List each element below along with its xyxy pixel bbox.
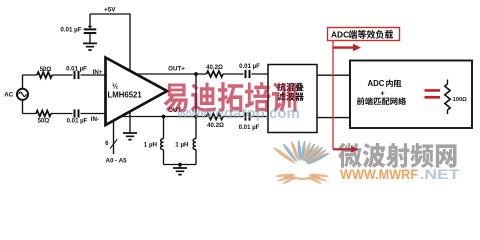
op-amp U1 LMH6521 [106,58,168,126]
red arrow top [333,44,361,51]
capacitor C1 0.01µF top input [66,66,87,80]
capacitor C2 0.01µF bottom input [67,109,88,124]
watermark 易迪拓培训 [164,82,297,112]
svg-text:LMH6521: LMH6521 [108,91,143,100]
svg-text:½: ½ [112,81,118,90]
svg-text:+: + [380,88,385,97]
svg-text:OUT+: OUT+ [168,65,185,72]
svg-text:IN-: IN- [91,116,99,123]
svg-text:1 µH: 1 µH [175,141,189,148]
watermark fan logo [273,140,331,185]
resistor R2 50Ω bottom input [36,111,51,125]
svg-text:40.2Ω: 40.2Ω [207,122,224,129]
svg-text:+5V: +5V [104,7,116,14]
svg-text:AC: AC [4,92,13,99]
bus A0-A5 [105,121,127,165]
svg-text:0.01 µF: 0.01 µF [67,118,88,125]
wire OUT- line [121,116,268,118]
resistor R5 100Ω [445,80,467,115]
svg-text:ADC: ADC [368,79,385,88]
wire filter to ADC top [317,74,350,76]
svg-text:0.01 µF: 0.01 µF [239,63,260,70]
svg-text:.NET: .NET [420,166,461,182]
inductor L2 1µH [175,74,196,165]
resistor R4 40.2Ω bottom [207,114,224,129]
capacitor C4 0.01µF top [239,63,260,78]
resistor R3 40.2Ω top [206,64,223,77]
svg-text:50Ω: 50Ω [40,66,52,73]
ground (inductors) [173,165,187,175]
red callout line [332,41,334,150]
node OUT- crossing junction [194,115,198,119]
svg-text:WWW.MWRF: WWW.MWRF [340,166,418,182]
wire bottom input [23,113,106,115]
inductor L1 1µH [144,117,164,165]
svg-text:0.01 µF: 0.01 µF [60,27,81,34]
capacitor C3 0.01µF bypass [60,14,96,43]
watermark 微波射频网 [338,143,456,168]
svg-text:0.01 µF: 0.01 µF [239,124,260,131]
red arrow bottom [333,146,359,153]
wire OUT+ line [136,73,268,75]
ADC equivalent load callout box (red) [328,28,400,41]
node OUT-/L1 junction [162,115,166,119]
svg-text:A0 - A5: A0 - A5 [106,158,128,165]
AC source V1 [4,75,28,114]
svg-text:100Ω: 100Ω [453,97,468,103]
wire inductor common rail [164,164,197,166]
equivalence sign (red) [425,90,441,97]
svg-text:IN+: IN+ [93,69,103,76]
ground (bypass cap) [83,43,97,50]
svg-text:40.2Ω: 40.2Ω [206,64,223,71]
wire filter to ADC bottom [317,117,350,119]
anti-alias filter box [268,65,317,133]
resistor R1 50Ω top input [37,66,52,78]
node rail center [178,163,182,167]
svg-text:0.01 µF: 0.01 µF [66,66,87,73]
wire top input [23,74,106,76]
node OUT+/L2 junction [194,72,198,76]
svg-text:ADC: ADC [331,30,349,40]
capacitor C5 0.01µF bottom [239,112,260,130]
ground (op-amp) [123,111,137,140]
svg-text:50Ω: 50Ω [38,118,50,125]
svg-text:www.edatop.com: www.edatop.com [176,105,300,122]
svg-text:1 µH: 1 µH [144,141,158,148]
+5V supply rail [90,7,130,71]
ADC load box [350,61,472,129]
